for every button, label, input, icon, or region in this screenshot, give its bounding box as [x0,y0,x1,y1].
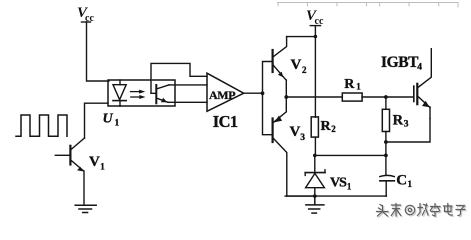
svg-text:IGBT: IGBT [381,54,419,71]
wire Vcc-left to optocoupler LED anode [87,22,110,81]
wire phototransistor emitter to AMP input 2 [168,101,207,103]
svg-text:3: 3 [404,120,409,130]
watermark text 头条@桃李电子 (drawn strokes) [377,204,467,218]
node Vcc junction [314,35,318,39]
wire V3 collector to ground rail [287,195,315,197]
square-wave input signal symbol [16,115,67,136]
resistor R2 [311,117,318,137]
svg-text:1: 1 [100,161,105,171]
phototransistor of U1 [151,85,169,103]
wire R1 to IGBT gate [362,96,414,98]
wire AMP output [244,92,263,94]
wire bottom ground rail [285,195,386,197]
svg-text:R: R [344,77,355,92]
wire R3 bottom to C1 top [385,132,387,176]
op-amp IC1 [207,73,244,111]
wire Vcc junction to V2 collector [287,36,316,38]
node ground rail junction [313,194,317,198]
ground under V1 [75,205,96,212]
svg-text:V: V [290,124,301,140]
transistor V3 (PNP) [273,97,287,196]
svg-text:1: 1 [115,118,120,128]
transistor V1 (NPN) [55,138,84,205]
power rail Vcc (left) [77,5,94,24]
svg-text:R: R [393,112,404,128]
node V2/V3 emitter junction [284,95,288,99]
LED of optocoupler U1 [113,80,126,106]
faint top ruler artifact line [278,3,459,8]
node VS1 top junction [313,154,317,158]
resistor R3 [382,109,389,131]
light emission arrows of U1 [131,90,146,99]
wire phototransistor base loop to AMP upper input [151,63,207,93]
svg-text:1: 1 [347,182,352,192]
svg-text:2: 2 [331,124,336,134]
svg-text:3: 3 [300,133,305,143]
svg-text:1: 1 [356,82,361,92]
zener diode VS1 [305,155,325,196]
ground center [306,196,324,213]
optocoupler U1 package box [108,80,175,106]
wire LED cathode to V1 collector [85,103,109,138]
wire output rail to R1 [286,96,342,98]
node AMP output junction [261,91,265,95]
wire IGBT emitter return [386,119,430,143]
resistor R1 [342,93,362,101]
wire base rail to V2 and V3 bases [263,62,272,135]
svg-text:U: U [103,112,114,127]
svg-text:1: 1 [408,179,413,189]
wire R2 bottom to VS1 node [314,137,316,155]
svg-text:V: V [89,154,100,170]
node R3/C1/VS1-rail junction [384,154,388,158]
wire VS1 node to C1 node [315,154,386,156]
wire Vcc-center down to R2 [314,26,316,117]
wire gate node down to R3 [385,97,387,109]
svg-text:VS: VS [330,176,347,191]
svg-text:2: 2 [302,65,307,75]
power rail Vcc (center) [306,8,324,27]
IGBT4 transistor symbol [414,49,432,119]
svg-text:R: R [321,119,332,134]
transistor V2 (NPN) [273,37,287,97]
capacitor C1 [380,175,394,196]
svg-text:AMP: AMP [209,88,235,102]
svg-text:IC1: IC1 [213,112,238,131]
svg-text:4: 4 [417,63,422,73]
node R3/emitter-return junction [384,140,388,144]
wire phototransistor collector to AMP input 1 [169,84,207,86]
svg-text:C: C [396,173,407,189]
node IGBT gate junction [384,95,388,99]
svg-text:V: V [291,57,302,73]
